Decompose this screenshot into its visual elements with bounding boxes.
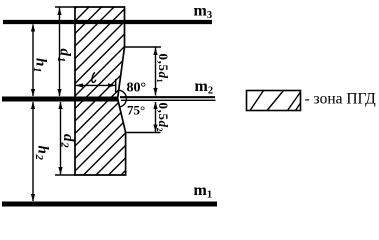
- seam line m2 right lower thin: [121, 99, 216, 101]
- tick at right end of l dimension: [115, 79, 117, 93]
- legend hatched box: [247, 91, 301, 111]
- svg-text:80°: 80°: [127, 81, 147, 96]
- bottom extension tick: [55, 174, 75, 176]
- seam line m1 (bottom thick stratum line): [2, 202, 217, 207]
- dimension h1 line: [32, 25, 34, 97]
- label l (script ell): [92, 72, 96, 82]
- top extension tick: [55, 6, 75, 8]
- dimension d2 line: [60, 102, 62, 175]
- svg-text:- зона ПГД: - зона ПГД: [305, 91, 377, 108]
- seam line m2 right upper thin: [120, 96, 215, 98]
- tick 0.5d2 bottom: [126, 132, 161, 134]
- svg-text:75°: 75°: [127, 103, 145, 118]
- seam line m2 left thick part: [2, 97, 118, 102]
- dimension h2 line: [32, 102, 34, 201]
- dimension l line: [76, 84, 116, 86]
- hatched zone ПГД (column crossing seams): [75, 7, 126, 175]
- angle arc at vertex: [119, 90, 126, 107]
- dimension 0.5d1 line: [155, 47, 157, 96]
- dimension d1 line: [59, 7, 61, 96]
- seam line m3 (top thick stratum line): [3, 20, 212, 24]
- tick 0.5d1 top: [125, 46, 162, 48]
- dimension 0.5d2 line: [155, 102, 157, 133]
